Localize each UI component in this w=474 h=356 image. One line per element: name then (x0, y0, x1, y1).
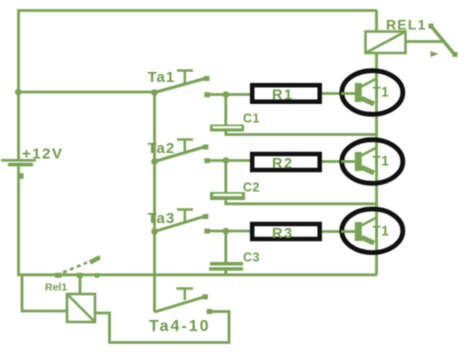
wire relay REL1 drop (375, 11, 378, 32)
wire transistor column (375, 53, 378, 275)
junction node row1 C1 (223, 91, 230, 98)
wire row2 R2 to T2 base (322, 160, 341, 163)
wire Ta chain vertical (153, 92, 156, 312)
switch Ta2 (151, 140, 210, 165)
svg-text:REL1: REL1 (386, 17, 427, 33)
svg-text:C3: C3 (243, 251, 260, 265)
junction node row2 C2 (223, 157, 230, 164)
wire C3 bottom stub to rail (224, 271, 227, 275)
junction node left rail / bus (15, 89, 22, 96)
relay coil Rel1 (bottom left) (67, 294, 95, 322)
resistor R3 (252, 224, 320, 239)
battery B1 +12V long plate (1, 159, 36, 162)
transistor T1 (341, 71, 403, 115)
svg-text:+12V: +12V (22, 146, 63, 163)
wire Rel1 coil right to Ta4 contact (95, 312, 229, 343)
resistor R1 (252, 85, 320, 102)
resistor R2 (252, 154, 320, 170)
capacitor C3 (209, 251, 260, 271)
transistor T2 (341, 140, 403, 184)
wire left rail upper (17, 9, 20, 160)
junction node row3 C3 (223, 228, 230, 235)
svg-text:C2: C2 (243, 181, 260, 195)
wire C3 top stub (224, 231, 227, 262)
switch Ta4-10 (155, 289, 213, 315)
relay contact REL1 (switch at top right) (429, 24, 458, 58)
battery B1 short plate (8, 163, 33, 167)
svg-text:Ta3: Ta3 (148, 210, 176, 227)
switch Ta1 (151, 71, 210, 98)
wire Rel1 coil left feed (22, 275, 67, 311)
relay contact Rel1 on bottom rail (55, 257, 100, 278)
wire row1 contact to junction to R1 (208, 93, 250, 96)
wire bottom rail (17, 273, 377, 276)
svg-text:T1: T1 (373, 85, 390, 100)
transistor T3 (341, 209, 403, 253)
wire top rail (17, 9, 377, 12)
wire row3 R3 to T3 base (322, 230, 341, 233)
svg-text:Rel1: Rel1 (45, 282, 67, 294)
switch Ta3 (151, 210, 210, 235)
capacitor C2 (210, 181, 260, 201)
wire row3 contact to junction to R3 (208, 230, 250, 233)
wire Rel1 coil top link (79, 276, 82, 294)
wire C2 top stub (224, 161, 227, 193)
capacitor C1 (210, 112, 260, 132)
wire row2 contact to junction to R2 (208, 159, 250, 162)
svg-text:R2: R2 (272, 156, 294, 172)
node square below battery (17, 173, 23, 179)
relay coil REL1 (366, 32, 406, 54)
wire C1 bottom L to emitter column (226, 131, 377, 135)
svg-text:T1: T1 (373, 224, 390, 239)
svg-text:Ta4-10: Ta4-10 (149, 318, 211, 335)
svg-text:Ta2: Ta2 (148, 140, 176, 157)
svg-text:R1: R1 (272, 88, 294, 104)
svg-text:Ta1: Ta1 (148, 69, 176, 86)
svg-text:R3: R3 (272, 226, 294, 242)
wire C1 top stub (224, 95, 227, 125)
wire REL1 right contact feed (406, 40, 443, 43)
wire left rail lower (17, 165, 20, 276)
wire row1 R1 to T1 base (322, 92, 341, 95)
svg-text:C1: C1 (243, 112, 260, 126)
wire C2 bottom L to emitter column (226, 200, 377, 204)
svg-text:T1: T1 (373, 154, 390, 169)
wire bus row1 (17, 91, 155, 94)
